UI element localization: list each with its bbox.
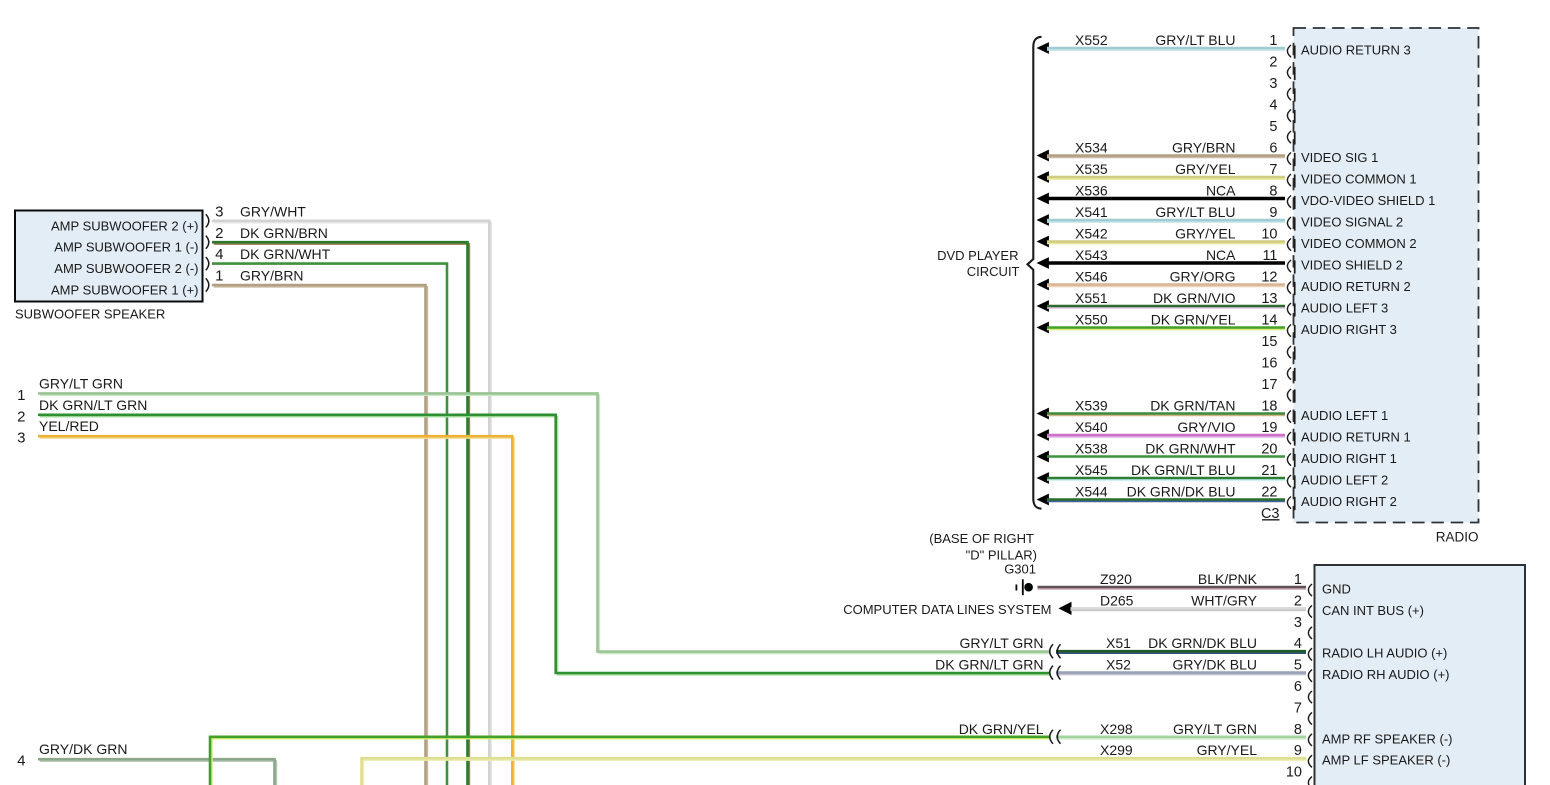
svg-text:4: 4 [1269, 98, 1277, 114]
svg-text:11: 11 [1262, 248, 1277, 264]
svg-text:6: 6 [1294, 679, 1302, 695]
svg-text:X551: X551 [1075, 290, 1108, 306]
amplifier pin 4 wire X51 [1056, 652, 1306, 654]
svg-text:4: 4 [17, 753, 25, 770]
svg-text:DK GRN/BRN: DK GRN/BRN [240, 225, 328, 241]
svg-text:2: 2 [1269, 55, 1277, 71]
svg-text:X546: X546 [1075, 269, 1108, 285]
svg-text:AUDIO LEFT 2: AUDIO LEFT 2 [1301, 473, 1388, 488]
svg-text:(BASE OF RIGHT: (BASE OF RIGHT [929, 531, 1034, 546]
amplifier pin 2 wire D265 to computer data lines [1071, 609, 1307, 611]
svg-text:17: 17 [1261, 377, 1277, 393]
subwoofer pin 1 GRY/BRN wire [214, 287, 427, 785]
svg-text:X545: X545 [1075, 462, 1108, 478]
svg-text:AUDIO RIGHT 2: AUDIO RIGHT 2 [1301, 494, 1397, 509]
subwoofer pin 4 DK GRN/WHT wire [212, 264, 447, 785]
svg-text:1: 1 [215, 268, 223, 285]
splice to pin 4 [1050, 644, 1053, 658]
svg-text:10: 10 [1286, 765, 1302, 781]
amplifier box connector [1315, 565, 1526, 785]
radio box C3 connector [1294, 28, 1479, 523]
subwoofer pin 2 symbol [206, 236, 209, 249]
svg-text:9: 9 [1294, 743, 1302, 759]
svg-text:RADIO LH AUDIO (+): RADIO LH AUDIO (+) [1322, 646, 1447, 661]
svg-text:"D" PILLAR): "D" PILLAR) [966, 548, 1037, 563]
radio C3 pin 7 wire X535 GRY/YEL [1037, 171, 1049, 183]
svg-text:DK GRN/WHT: DK GRN/WHT [240, 246, 331, 262]
svg-text:GRY/WHT: GRY/WHT [240, 203, 306, 219]
svg-text:AUDIO RETURN 1: AUDIO RETURN 1 [1301, 430, 1411, 445]
svg-text:DK GRN/TAN: DK GRN/TAN [1150, 398, 1235, 414]
svg-text:GRY/YEL: GRY/YEL [1175, 226, 1236, 242]
wire 1 GRY/LT GRN from connector pin 1 to splice at radio amp pin 4 [40, 395, 1051, 653]
svg-text:DK GRN/DK BLU: DK GRN/DK BLU [1148, 635, 1257, 651]
svg-text:CAN INT BUS (+): CAN INT BUS (+) [1322, 603, 1424, 618]
svg-text:Z920: Z920 [1100, 571, 1132, 587]
svg-text:GRY/BRN: GRY/BRN [1172, 140, 1236, 156]
svg-text:8: 8 [1294, 722, 1302, 738]
svg-text:2: 2 [1294, 593, 1302, 609]
svg-text:14: 14 [1261, 313, 1277, 329]
svg-text:COMPUTER DATA LINES SYSTEM: COMPUTER DATA LINES SYSTEM [843, 602, 1051, 617]
svg-text:GRY/DK BLU: GRY/DK BLU [1172, 657, 1257, 673]
svg-text:DK GRN/LT BLU: DK GRN/LT BLU [1131, 462, 1236, 478]
svg-text:1: 1 [1269, 33, 1277, 49]
svg-text:CIRCUIT: CIRCUIT [967, 264, 1020, 279]
svg-text:18: 18 [1261, 399, 1277, 415]
svg-text:X542: X542 [1075, 226, 1108, 242]
svg-text:6: 6 [1269, 141, 1277, 157]
svg-text:VIDEO COMMON 2: VIDEO COMMON 2 [1301, 236, 1417, 251]
svg-text:5: 5 [1269, 119, 1277, 135]
svg-text:GRY/VIO: GRY/VIO [1177, 419, 1235, 435]
svg-text:GRY/YEL: GRY/YEL [1175, 161, 1236, 177]
brace DVD player circuit [1028, 37, 1042, 509]
svg-text:8: 8 [1269, 184, 1277, 200]
svg-text:RADIO RH AUDIO (+): RADIO RH AUDIO (+) [1322, 667, 1450, 682]
svg-text:X534: X534 [1075, 140, 1108, 156]
radio C3 pin 12 wire X546 GRY/ORG [1037, 279, 1049, 291]
svg-text:7: 7 [1294, 700, 1302, 716]
radio C3 pin 21 wire X545 DK GRN/LT BLU [1037, 472, 1049, 484]
svg-text:DK GRN/YEL: DK GRN/YEL [959, 721, 1044, 737]
svg-text:X298: X298 [1100, 721, 1133, 737]
svg-text:DK GRN/YEL: DK GRN/YEL [1151, 312, 1236, 328]
svg-text:3: 3 [17, 430, 25, 447]
svg-text:D265: D265 [1100, 592, 1134, 608]
radio C3 pin 22 wire X544 DK GRN/DK BLU [1037, 494, 1049, 506]
svg-text:X541: X541 [1075, 204, 1108, 220]
ground G301 symbol [1015, 585, 1017, 591]
svg-text:DK GRN/VIO: DK GRN/VIO [1153, 290, 1236, 306]
svg-text:AMP RF SPEAKER (-): AMP RF SPEAKER (-) [1322, 731, 1453, 746]
svg-text:SUBWOOFER SPEAKER: SUBWOOFER SPEAKER [15, 307, 165, 322]
svg-text:GRY/LT BLU: GRY/LT BLU [1155, 204, 1235, 220]
svg-text:GND: GND [1322, 582, 1351, 597]
radio C3 pin 10 wire X542 GRY/YEL [1037, 236, 1049, 248]
splice to pin 8 [1050, 730, 1053, 744]
svg-text:2: 2 [17, 408, 25, 425]
svg-text:DK GRN/DK BLU: DK GRN/DK BLU [1127, 484, 1236, 500]
svg-text:VIDEO SIGNAL 2: VIDEO SIGNAL 2 [1301, 215, 1403, 230]
svg-text:X539: X539 [1075, 398, 1108, 414]
radio C3 pin 11 wire X543 NCA [1037, 257, 1049, 269]
svg-text:1: 1 [1294, 572, 1302, 588]
svg-text:G301: G301 [1004, 562, 1036, 577]
svg-text:WHT/GRY: WHT/GRY [1191, 592, 1258, 608]
svg-text:X51: X51 [1106, 635, 1131, 651]
svg-text:NCA: NCA [1206, 247, 1236, 263]
svg-text:GRY/DK GRN: GRY/DK GRN [39, 741, 127, 757]
wire DK GRN/YEL from off page bottom to splice at radio amp pin 8 [212, 739, 1051, 785]
svg-text:3: 3 [1269, 76, 1277, 92]
svg-text:AUDIO RIGHT 3: AUDIO RIGHT 3 [1301, 322, 1397, 337]
svg-text:YEL/RED: YEL/RED [39, 418, 99, 434]
radio C3 pin 14 wire X550 DK GRN/YEL [1037, 322, 1049, 334]
svg-text:X52: X52 [1106, 657, 1131, 673]
svg-text:4: 4 [1294, 636, 1302, 652]
svg-text:GRY/LT GRN: GRY/LT GRN [959, 635, 1043, 651]
svg-text:VIDEO SHIELD 2: VIDEO SHIELD 2 [1301, 258, 1403, 273]
amplifier pin 1 wire Z920 from ground [1038, 588, 1307, 590]
radio C3 pin 6 wire X534 GRY/BRN [1037, 150, 1049, 162]
svg-text:X536: X536 [1075, 183, 1108, 199]
svg-text:20: 20 [1261, 442, 1277, 458]
svg-text:22: 22 [1261, 485, 1277, 501]
svg-text:X550: X550 [1075, 312, 1108, 328]
svg-text:DK GRN/LT GRN: DK GRN/LT GRN [935, 657, 1043, 673]
subwoofer pin 2 DK GRN/BRN wire [214, 244, 469, 785]
svg-text:19: 19 [1261, 420, 1277, 436]
svg-text:GRY/LT BLU: GRY/LT BLU [1155, 32, 1235, 48]
svg-text:2: 2 [215, 225, 223, 242]
svg-text:X540: X540 [1075, 419, 1108, 435]
svg-text:AMP SUBWOOFER 1 (+): AMP SUBWOOFER 1 (+) [51, 283, 198, 298]
svg-text:9: 9 [1269, 205, 1277, 221]
svg-text:12: 12 [1261, 270, 1277, 286]
svg-text:AMP SUBWOOFER 1 (-): AMP SUBWOOFER 1 (-) [54, 240, 198, 255]
svg-text:5: 5 [1294, 658, 1302, 674]
radio C3 pin 8 wire X536 NCA [1037, 193, 1049, 205]
svg-text:VIDEO COMMON 1: VIDEO COMMON 1 [1301, 172, 1417, 187]
svg-text:NCA: NCA [1206, 183, 1236, 199]
amplifier pin 5 wire X52 [1056, 674, 1306, 676]
svg-text:GRY/LT GRN: GRY/LT GRN [1173, 721, 1257, 737]
subwoofer pin 1 symbol [206, 278, 209, 291]
svg-text:1: 1 [17, 387, 25, 404]
radio C3 pin 1 wire X552 GRY/LT BLU [1037, 42, 1049, 54]
svg-text:DK GRN/LT GRN: DK GRN/LT GRN [39, 397, 147, 413]
splice to pin 5 [1050, 666, 1053, 680]
svg-text:15: 15 [1261, 334, 1277, 350]
svg-text:AUDIO LEFT 1: AUDIO LEFT 1 [1301, 408, 1388, 423]
svg-text:X552: X552 [1075, 32, 1108, 48]
radio C3 pin 20 wire X538 DK GRN/WHT [1037, 451, 1049, 463]
svg-text:DK GRN/WHT: DK GRN/WHT [1145, 441, 1236, 457]
svg-text:AMP SUBWOOFER 2 (-): AMP SUBWOOFER 2 (-) [54, 261, 198, 276]
svg-text:VIDEO SIG 1: VIDEO SIG 1 [1301, 150, 1378, 165]
svg-text:RADIO: RADIO [1436, 530, 1479, 545]
subwoofer pin 4 symbol [206, 257, 209, 270]
svg-text:AUDIO RETURN 2: AUDIO RETURN 2 [1301, 279, 1411, 294]
svg-text:X543: X543 [1075, 247, 1108, 263]
radio C3 pin 18 wire X539 DK GRN/TAN [1037, 408, 1049, 420]
subwoofer pin 3 symbol [206, 214, 209, 227]
svg-text:GRY/ORG: GRY/ORG [1170, 269, 1236, 285]
svg-text:3: 3 [1294, 615, 1302, 631]
svg-text:X535: X535 [1075, 161, 1108, 177]
wire 3 YEL/RED from connector pin 3 down off page [40, 438, 514, 785]
subwoofer speaker box [15, 211, 203, 302]
svg-text:GRY/YEL: GRY/YEL [1197, 742, 1258, 758]
svg-text:GRY/BRN: GRY/BRN [240, 268, 304, 284]
amplifier pin 8 wire X298 [1056, 738, 1306, 740]
radio C3 pin 9 wire X541 GRY/LT BLU [1037, 214, 1049, 226]
svg-text:AMP LF SPEAKER (-): AMP LF SPEAKER (-) [1322, 753, 1450, 768]
svg-text:16: 16 [1261, 356, 1277, 372]
svg-text:GRY/LT GRN: GRY/LT GRN [39, 375, 123, 391]
svg-text:AUDIO RIGHT 1: AUDIO RIGHT 1 [1301, 451, 1397, 466]
radio C3 pin 13 wire X551 DK GRN/VIO [1037, 300, 1049, 312]
svg-text:BLK/PNK: BLK/PNK [1198, 571, 1258, 587]
svg-text:21: 21 [1261, 463, 1277, 479]
svg-text:10: 10 [1261, 227, 1277, 243]
wire 4 GRY/DK GRN from connector pin 4 down off page [40, 761, 276, 785]
svg-text:4: 4 [215, 246, 223, 263]
wire 2 DK GRN/LT GRN from connector pin 2 to splice at radio amp pin 5 [40, 417, 1051, 675]
svg-text:DVD PLAYER: DVD PLAYER [937, 248, 1018, 263]
svg-text:VDO-VIDEO SHIELD 1: VDO-VIDEO SHIELD 1 [1301, 193, 1435, 208]
radio C3 pin 19 wire X540 GRY/VIO [1037, 429, 1049, 441]
svg-text:X544: X544 [1075, 484, 1108, 500]
svg-text:AUDIO RETURN 3: AUDIO RETURN 3 [1301, 43, 1411, 58]
svg-text:7: 7 [1269, 162, 1277, 178]
svg-text:X538: X538 [1075, 441, 1108, 457]
svg-text:AMP SUBWOOFER 2 (+): AMP SUBWOOFER 2 (+) [51, 218, 198, 233]
svg-text:13: 13 [1261, 291, 1277, 307]
subwoofer pin 3 GRY/WHT wire [214, 223, 491, 785]
svg-text:AUDIO LEFT 3: AUDIO LEFT 3 [1301, 301, 1388, 316]
svg-text:X299: X299 [1100, 742, 1133, 758]
wire GRY/YEL from off page bottom to radio amp pin 9 [363, 760, 1308, 785]
svg-text:3: 3 [215, 203, 223, 220]
